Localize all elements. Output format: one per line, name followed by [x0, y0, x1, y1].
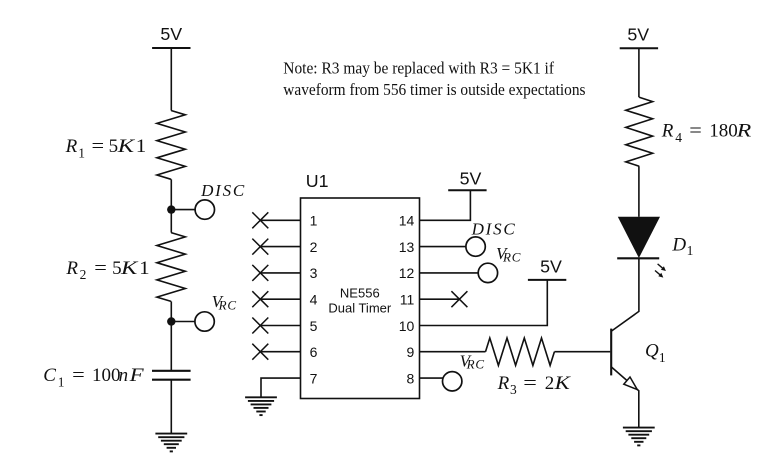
- resistor R3: [486, 338, 555, 365]
- label VRC (pin 12): [496, 244, 521, 264]
- svg-text:=: =: [94, 258, 107, 279]
- label D1: [671, 235, 693, 258]
- svg-text:D: D: [671, 235, 686, 256]
- svg-text:5: 5: [310, 318, 318, 334]
- svg-text:C: C: [43, 365, 56, 386]
- wire pin 2 stub: [260, 246, 300, 248]
- svg-text:1: 1: [310, 213, 318, 229]
- svg-text:n: n: [119, 365, 129, 386]
- pin numbers 1-7: [310, 213, 318, 387]
- svg-text:R: R: [497, 373, 510, 394]
- svg-text:K: K: [120, 258, 139, 279]
- svg-text:RC: RC: [502, 249, 521, 264]
- wire pin 4 stub: [260, 298, 300, 300]
- wire pin 6 stub: [260, 351, 300, 353]
- svg-text:=: =: [92, 136, 105, 157]
- label R2 = 5K1: [65, 258, 149, 282]
- label NE556 Dual Timer: [328, 286, 392, 316]
- label C1 = 100nF: [43, 365, 144, 389]
- wire 5V to R4: [638, 48, 640, 97]
- wire node to DISC terminal: [171, 209, 195, 211]
- svg-text:K: K: [553, 373, 571, 394]
- label R3 = 2K: [497, 373, 572, 397]
- terminal DISC (left): [195, 200, 214, 219]
- wire R1 to R2: [170, 179, 172, 232]
- svg-text:=: =: [523, 373, 537, 394]
- wire pin 11 stub: [420, 298, 460, 300]
- capacitor C1: [152, 371, 191, 380]
- transistor Q1 base bar: [610, 329, 612, 376]
- svg-text:7: 7: [310, 370, 318, 386]
- svg-text:14: 14: [399, 213, 415, 229]
- svg-text:1: 1: [139, 258, 150, 279]
- node junction dot (DISC node): [167, 205, 175, 213]
- power 5V rail (right): [620, 24, 658, 48]
- svg-text:1: 1: [687, 243, 694, 258]
- svg-text:R: R: [65, 136, 78, 157]
- terminal VRC (pin 8): [443, 372, 462, 391]
- svg-text:Note: R3 may be replaced with: Note: R3 may be replaced with R3 = 5K1 i…: [283, 59, 554, 78]
- wire pin 3 stub: [260, 272, 300, 274]
- power 5V rail (pin 10): [528, 256, 566, 280]
- svg-text:2: 2: [80, 267, 87, 282]
- svg-text:6: 6: [310, 344, 318, 360]
- wire node to VRC terminal: [171, 321, 195, 323]
- label VRC (pin 9 wire): [460, 351, 485, 371]
- wire R3 to Q1 base: [554, 351, 610, 353]
- no-connect X pin 4: [252, 291, 268, 307]
- power 5V rail (pin 14): [448, 168, 486, 190]
- wire R4 to D1: [638, 166, 640, 217]
- wire pin 5 stub: [260, 325, 300, 327]
- svg-text:5: 5: [109, 136, 119, 157]
- svg-text:9: 9: [407, 344, 415, 360]
- svg-text:Dual Timer: Dual Timer: [328, 301, 392, 316]
- svg-text:RC: RC: [466, 357, 485, 372]
- svg-text:3: 3: [310, 265, 318, 281]
- svg-text:8: 8: [407, 370, 415, 386]
- svg-text:3: 3: [510, 382, 517, 397]
- svg-text:=: =: [72, 365, 85, 386]
- svg-text:5V: 5V: [627, 24, 649, 44]
- svg-text:4: 4: [310, 292, 318, 308]
- resistor R4: [626, 97, 653, 166]
- svg-text:DISC: DISC: [471, 219, 517, 238]
- svg-text:5V: 5V: [160, 24, 182, 44]
- resistor R1: [157, 111, 185, 180]
- no-connect X pin 11: [451, 291, 467, 307]
- terminal VRC (left): [195, 312, 214, 331]
- diode D1 (LED): [617, 217, 660, 258]
- svg-text:Q: Q: [645, 341, 659, 362]
- svg-text:=: =: [689, 121, 702, 142]
- node junction dot (VRC node): [167, 317, 175, 325]
- no-connect X pin 6: [252, 344, 268, 360]
- svg-text:5V: 5V: [460, 168, 482, 188]
- label VRC (left): [212, 292, 237, 312]
- svg-text:11: 11: [400, 292, 415, 308]
- svg-text:NE556: NE556: [340, 286, 380, 301]
- no-connect X pin 2: [252, 239, 268, 255]
- wire pin 12 to VRC terminal: [420, 272, 479, 274]
- svg-text:100: 100: [92, 365, 121, 386]
- wire pin 9 to R3: [420, 351, 486, 353]
- wire pin 1 stub: [260, 219, 300, 221]
- power 5V rail (left): [152, 24, 190, 48]
- svg-text:R: R: [65, 258, 78, 279]
- transistor Q1 emitter: [611, 367, 638, 428]
- resistor R2: [157, 233, 185, 302]
- svg-text:DISC: DISC: [200, 181, 246, 200]
- terminal VRC (pin 12): [478, 263, 497, 282]
- wire pin 7 to ground: [261, 378, 301, 397]
- ground (left column): [155, 434, 187, 452]
- svg-text:1: 1: [659, 350, 666, 365]
- svg-text:13: 13: [399, 239, 415, 255]
- svg-text:waveform from 556 timer is out: waveform from 556 timer is outside expec…: [283, 80, 585, 99]
- wire pin 14 to 5V: [420, 190, 471, 220]
- note text: [283, 59, 585, 100]
- svg-text:4: 4: [675, 130, 682, 145]
- svg-text:2: 2: [545, 373, 555, 394]
- svg-text:R: R: [736, 121, 752, 142]
- label Q1: [645, 341, 666, 365]
- svg-text:1: 1: [136, 136, 147, 157]
- svg-text:180: 180: [709, 121, 738, 142]
- label R1 = 5K1: [65, 136, 147, 160]
- svg-text:R: R: [661, 121, 674, 142]
- ground (pin 7): [245, 397, 277, 415]
- no-connect X pin 5: [252, 318, 268, 334]
- wire pin 10 to 5V: [420, 280, 548, 326]
- wire 5V to R1: [170, 48, 172, 111]
- wire C1 to ground: [170, 380, 172, 434]
- svg-text:10: 10: [399, 318, 415, 334]
- svg-text:5V: 5V: [540, 256, 562, 276]
- wire pin 8 to VRC terminal: [420, 377, 443, 379]
- svg-text:U1: U1: [306, 171, 329, 191]
- no-connect X pin 1: [252, 212, 268, 228]
- LED emission arrows of D1: [655, 264, 666, 278]
- wire R2 to C1: [170, 301, 172, 370]
- no-connect X pin 3: [252, 265, 268, 281]
- svg-text:1: 1: [58, 374, 65, 389]
- svg-text:RC: RC: [218, 297, 237, 312]
- wire D1 to Q1 collector: [611, 258, 639, 331]
- svg-text:1: 1: [78, 145, 85, 160]
- svg-text:F: F: [128, 365, 144, 386]
- ground (right column): [623, 428, 655, 446]
- wire pin 13 to DISC terminal: [420, 246, 467, 248]
- svg-text:K: K: [117, 136, 136, 157]
- pin numbers 8-14: [399, 213, 415, 387]
- svg-text:12: 12: [399, 265, 415, 281]
- svg-text:2: 2: [310, 239, 318, 255]
- label R4 = 180R: [661, 121, 752, 145]
- op IC U1 NE556 body: [301, 198, 420, 399]
- terminal DISC (pin 13): [466, 237, 485, 256]
